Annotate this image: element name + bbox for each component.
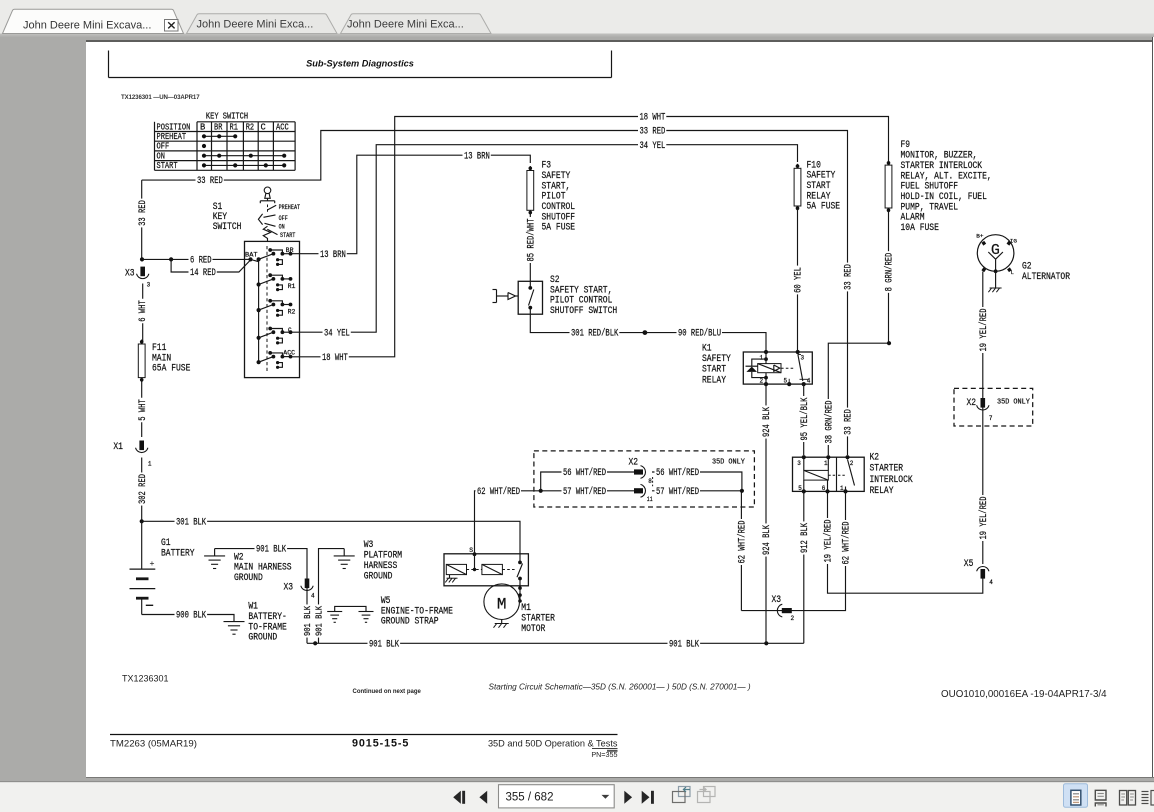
svg-text:2: 2 [760, 377, 764, 384]
switch S2 safety start pilot control shutoff [518, 281, 542, 314]
connector X3 pin 3 [140, 267, 145, 277]
svg-text:START: START [807, 181, 831, 192]
svg-text:X3: X3 [772, 595, 782, 606]
svg-text:85 RED/WHT: 85 RED/WHT [526, 219, 538, 262]
relay K1 contact blade [781, 367, 795, 369]
svg-text:STARTER: STARTER [870, 464, 904, 475]
key switch S1 spring link [263, 226, 270, 241]
svg-text:John Deere Mini Exca...: John Deere Mini Exca... [347, 19, 464, 31]
wire 8 GRN/RED from F9 to K2 pin 1 [828, 210, 888, 455]
svg-text:W2: W2 [234, 552, 244, 563]
svg-text:John Deere Mini Exca...: John Deere Mini Exca... [197, 19, 314, 31]
svg-text:355 / 682: 355 / 682 [506, 792, 554, 804]
svg-text:6 RED: 6 RED [190, 256, 212, 267]
svg-text:34 YEL: 34 YEL [640, 141, 666, 152]
svg-text:F3: F3 [542, 161, 552, 172]
svg-text:SAFETY: SAFETY [542, 171, 571, 182]
svg-text:K1: K1 [702, 343, 712, 354]
svg-text:X3: X3 [284, 583, 294, 594]
alternator G2 terminal IG [1007, 241, 1012, 246]
junction battery positive node [140, 519, 144, 523]
starter motor M1 [484, 584, 520, 620]
svg-text:10A FUSE: 10A FUSE [901, 223, 939, 234]
relay K1 suppression diode [752, 359, 766, 366]
fuse F9 monitor buzzer starter interlock 10A [885, 165, 892, 208]
wire 901 BLK bottom run [307, 642, 804, 644]
svg-text:G2: G2 [1022, 262, 1032, 273]
svg-text:PILOT: PILOT [542, 192, 566, 203]
svg-text:X1: X1 [113, 442, 123, 453]
relay K1 pin 4 [802, 382, 806, 386]
svg-text:901 BLK: 901 BLK [369, 639, 399, 650]
35D only option box right [954, 388, 1033, 426]
svg-text:62 WHT/RED: 62 WHT/RED [737, 521, 749, 564]
svg-text:6: 6 [822, 485, 826, 492]
key switch S1 contact bus [258, 259, 260, 362]
svg-text:PREHEAT: PREHEAT [279, 204, 301, 211]
wire 6 RED to S1 BAT [142, 258, 245, 260]
svg-text:START,: START, [542, 181, 571, 192]
svg-text:Continued on next page: Continued on next page [353, 689, 422, 695]
starter solenoid coil feed [474, 554, 476, 569]
wire 56 WHT/RED left [541, 472, 634, 491]
svg-text:R1: R1 [288, 283, 296, 290]
svg-text:35D ONLY: 35D ONLY [712, 458, 746, 466]
svg-text:SHUTOFF SWITCH: SHUTOFF SWITCH [550, 306, 617, 317]
starter solenoid pull-in coil [446, 564, 466, 574]
connector X2 pin 11 [634, 488, 643, 493]
svg-text:33 RED: 33 RED [844, 409, 855, 435]
svg-text:START: START [157, 161, 178, 171]
svg-text:X5: X5 [964, 559, 974, 570]
svg-text:33 RED: 33 RED [197, 176, 223, 187]
ground W1 battery-to-frame [224, 621, 245, 623]
wire 62 WHT/RED from K2 pin 1 through X3 pin 2 [741, 491, 845, 610]
svg-text:5 WHT: 5 WHT [138, 399, 149, 421]
wire 85 RED/WHT from F3 to S2 [529, 213, 531, 282]
svg-text:IG: IG [1010, 239, 1017, 245]
wire 14 RED to S1 BAT [171, 259, 250, 272]
wire 33 RED left vertical feed [141, 180, 143, 259]
fuse F3 safety start pilot control shutoff 5A [527, 171, 534, 211]
svg-text:1: 1 [840, 485, 844, 492]
svg-text:901 BLK: 901 BLK [303, 605, 313, 636]
wire 901 BLK from W2 through X3 pin 4 [215, 549, 307, 644]
svg-text:SHUTOFF: SHUTOFF [542, 212, 576, 223]
connector X2 pin 7 [981, 398, 986, 408]
svg-text:INTERLOCK: INTERLOCK [870, 475, 913, 486]
svg-text:ALARM: ALARM [901, 213, 925, 224]
svg-text:STARTER: STARTER [521, 613, 555, 624]
connector X5 pin 4 [981, 569, 986, 579]
splice 301 RED/BLK to 90 RED/BLU [643, 330, 648, 335]
alternator G2 terminal B+ [981, 241, 986, 246]
wire 60 YEL from F10 to K1 pin 3 [797, 208, 799, 352]
svg-text:ON: ON [157, 151, 165, 161]
svg-text:SAFETY: SAFETY [702, 354, 731, 365]
svg-text:BATTERY: BATTERY [161, 549, 195, 560]
svg-text:65A FUSE: 65A FUSE [152, 364, 190, 375]
svg-text:4: 4 [311, 593, 315, 600]
svg-text:SWITCH: SWITCH [213, 222, 242, 233]
svg-text:MAIN: MAIN [152, 353, 171, 364]
svg-text:OFF: OFF [279, 215, 288, 222]
svg-text:2: 2 [850, 460, 854, 467]
key switch S1 R1 contact [257, 282, 261, 286]
starter motor ground [501, 620, 503, 624]
svg-text:924 BLK: 924 BLK [762, 525, 773, 555]
junction 14 RED split [169, 257, 173, 261]
svg-text:8 GRN/RED: 8 GRN/RED [884, 253, 896, 292]
svg-text:TX1236301 —UN—03APR17: TX1236301 —UN—03APR17 [121, 94, 200, 101]
wire 900 BLK to W1 [142, 615, 234, 622]
svg-text:C: C [288, 327, 292, 334]
svg-text:KEY SWITCH: KEY SWITCH [206, 112, 248, 122]
page header box Sub-System Diagnostics [108, 51, 110, 78]
svg-text:5: 5 [784, 377, 788, 384]
svg-text:62 WHT/RED: 62 WHT/RED [477, 486, 520, 498]
relay K1 pin 2 [764, 382, 768, 386]
key switch S1 rotary positions [267, 205, 269, 214]
key switch table PREHEAT contacts [204, 135, 235, 137]
wire 34 YEL from S1 C to F10 [292, 145, 798, 333]
svg-text:GROUND: GROUND [248, 633, 277, 644]
connector X1 pin 1 [139, 441, 144, 451]
svg-text:F11: F11 [152, 343, 166, 354]
svg-text:GROUND: GROUND [234, 573, 263, 584]
svg-text:8: 8 [648, 478, 652, 485]
key switch table START contacts [204, 164, 284, 166]
svg-text:M1: M1 [521, 603, 531, 614]
svg-text:START: START [280, 232, 296, 239]
junction 35D box right [740, 489, 744, 493]
svg-text:33 RED: 33 RED [138, 200, 149, 226]
svg-text:5: 5 [798, 485, 802, 492]
svg-text:L: L [1011, 270, 1014, 276]
relay K1 pin 3 [796, 350, 800, 354]
svg-text:R2: R2 [246, 122, 254, 132]
svg-text:PLATFORM: PLATFORM [364, 551, 402, 562]
connector X3 pin 2 [777, 604, 782, 617]
wire 301 RED/BLK from S2 [530, 314, 645, 332]
wire 19 YEL/RED alternator to X5 [982, 272, 984, 565]
wire 912 BLK from K2 pin 5 [803, 491, 805, 643]
svg-text:4: 4 [989, 579, 993, 586]
svg-text:S: S [469, 547, 473, 554]
starter solenoid body M1 [444, 554, 528, 586]
junction X3 feed [140, 257, 144, 261]
svg-text:56 WHT/RED: 56 WHT/RED [563, 467, 606, 479]
svg-text:1: 1 [148, 460, 152, 467]
alternator G2 [977, 235, 1014, 272]
svg-text:B: B [200, 122, 205, 132]
key switch S1 BR contact [257, 257, 261, 261]
svg-text:K2: K2 [870, 453, 880, 464]
svg-text:9015-15-5: 9015-15-5 [352, 738, 409, 750]
starter solenoid ground [449, 575, 451, 579]
switch S2 actuator [496, 290, 498, 303]
svg-text:R1: R1 [230, 122, 238, 132]
svg-text:901 BLK: 901 BLK [315, 605, 325, 636]
wire 18 WHT from S1 ACC to F9 [292, 117, 889, 357]
svg-text:13 BRN: 13 BRN [464, 151, 490, 162]
svg-text:19 YEL/RED: 19 YEL/RED [823, 520, 835, 563]
svg-text:Sub-System Diagnostics: Sub-System Diagnostics [306, 59, 414, 69]
relay K2 pin 1 bottom [843, 489, 847, 493]
wire 95 YEL/BLK from K1 pin 4 to K2 pin 3 [803, 384, 805, 455]
starter solenoid contact [518, 561, 522, 565]
svg-text:G1: G1 [161, 538, 171, 549]
svg-text:CONTROL: CONTROL [542, 202, 576, 213]
svg-text:1: 1 [824, 460, 828, 467]
svg-text:301 BLK: 301 BLK [176, 517, 206, 528]
wire 57 WHT/RED right [652, 490, 742, 492]
fuse F10 safety start relay 5A [794, 168, 801, 206]
svg-text:18 WHT: 18 WHT [640, 113, 666, 124]
svg-text:38 GRN/RED: 38 GRN/RED [824, 401, 836, 444]
svg-text:M: M [497, 595, 507, 613]
svg-text:R2: R2 [288, 309, 296, 316]
svg-text:19 YEL/RED: 19 YEL/RED [978, 309, 990, 352]
key switch S1 key symbol [264, 187, 271, 194]
key switch table OFF contact [202, 144, 206, 148]
svg-text:OFF: OFF [157, 142, 170, 152]
svg-text:RELAY: RELAY [870, 486, 894, 497]
relay K2 pin 3 [802, 455, 806, 459]
junction 8 GRN/RED [887, 341, 891, 345]
svg-text:60 YEL: 60 YEL [794, 267, 805, 293]
relay K2 contact blade [828, 474, 835, 476]
svg-text:57 WHT/RED: 57 WHT/RED [563, 486, 606, 498]
svg-text:5A FUSE: 5A FUSE [542, 223, 576, 234]
svg-text:RELAY: RELAY [702, 375, 726, 386]
junction 901 BLK node [313, 641, 317, 645]
fuse F11 main 65A [138, 344, 145, 378]
wire 901 BLK from W3 [319, 549, 345, 644]
connector X3 pin 4 [305, 579, 310, 589]
svg-text:900 BLK: 900 BLK [176, 611, 206, 622]
svg-text:X2: X2 [967, 398, 977, 409]
svg-text:ON: ON [279, 223, 285, 230]
wire 33 RED from X3 junction to K2 pin 2 [142, 131, 848, 456]
svg-text:95 YEL/BLK: 95 YEL/BLK [799, 398, 811, 441]
svg-text:HARNESS: HARNESS [364, 561, 398, 572]
svg-text:GROUND STRAP: GROUND STRAP [381, 617, 439, 628]
svg-text:MONITOR, BUZZER,: MONITOR, BUZZER, [901, 151, 978, 162]
svg-text:TM2263 (05MAR19): TM2263 (05MAR19) [110, 738, 197, 749]
relay K2 pin 6 [825, 489, 829, 493]
relay K1 coil [765, 352, 767, 364]
svg-text:OUO1010,00016EA -19-04APR17-3/: OUO1010,00016EA -19-04APR17-3/4 [941, 689, 1107, 700]
svg-text:C: C [261, 122, 266, 132]
svg-text:ACC: ACC [276, 122, 289, 132]
svg-text:1: 1 [760, 355, 764, 362]
wire 6 WHT [142, 284, 144, 342]
svg-text:302 RED: 302 RED [138, 474, 149, 504]
svg-text:35D and 50D Operation & Tests: 35D and 50D Operation & Tests [488, 738, 618, 748]
svg-text:11: 11 [647, 496, 653, 503]
junction 35D box left [539, 489, 543, 493]
key switch S1 ACC contact [257, 360, 261, 364]
wire 90 RED/BLU to K1 pin 1 [645, 333, 766, 352]
svg-text:3: 3 [801, 355, 805, 362]
svg-text:912 BLK: 912 BLK [800, 523, 811, 553]
svg-text:56 WHT/RED: 56 WHT/RED [656, 467, 699, 479]
svg-text:+: + [150, 558, 155, 568]
svg-text:BR: BR [214, 122, 223, 132]
wire 56 WHT/RED right [652, 472, 742, 491]
key switch table ON contacts [204, 155, 284, 157]
svg-text:PREHEAT: PREHEAT [157, 132, 187, 142]
wire 924 BLK from K1 pin 2 [765, 384, 767, 643]
svg-text:W5: W5 [381, 596, 391, 607]
svg-text:F9: F9 [901, 140, 911, 151]
svg-text:John Deere Mini Excava...: John Deere Mini Excava... [23, 19, 151, 31]
svg-text:PUMP, TRAVEL: PUMP, TRAVEL [901, 202, 959, 213]
relay K1 pin 1 [764, 350, 768, 354]
svg-text:901 BLK: 901 BLK [669, 639, 699, 650]
relay K1 pin 5 [787, 382, 791, 386]
wire 57 WHT/RED left [541, 490, 634, 492]
svg-text:HOLD-IN COIL, FUEL: HOLD-IN COIL, FUEL [901, 192, 987, 203]
svg-text:3: 3 [797, 460, 801, 467]
svg-text:Starting Circuit Schematic—35D: Starting Circuit Schematic—35D (S.N. 260… [489, 682, 751, 691]
svg-text:STARTER INTERLOCK: STARTER INTERLOCK [901, 161, 983, 172]
alternator G2 output terminal [981, 267, 986, 272]
relay K2 pin 5 [802, 489, 806, 493]
svg-text:62 WHT/RED: 62 WHT/RED [841, 522, 853, 565]
svg-text:BAT: BAT [245, 251, 258, 258]
svg-text:X3: X3 [125, 268, 135, 279]
svg-text:POSITION: POSITION [157, 122, 191, 132]
svg-text:FUEL SHUTOFF: FUEL SHUTOFF [901, 182, 959, 193]
starter solenoid coil link dashed [467, 569, 482, 571]
key switch S1 internal dashed shaft [266, 246, 268, 372]
wire 19 YEL/RED from K2 pin 6 to X5 [828, 491, 983, 593]
svg-text:4: 4 [807, 377, 811, 384]
svg-text:5A FUSE: 5A FUSE [807, 202, 841, 213]
key switch S1 body [245, 241, 300, 377]
key switch S1 R2 contact [257, 308, 261, 312]
svg-text:19 YEL/RED: 19 YEL/RED [978, 497, 990, 540]
svg-text:TX1236301: TX1236301 [122, 674, 169, 684]
svg-text:33 RED: 33 RED [640, 127, 666, 138]
svg-text:34 YEL: 34 YEL [324, 328, 350, 339]
relay K2 pin 2 [845, 455, 849, 459]
svg-text:35D ONLY: 35D ONLY [997, 399, 1031, 407]
wire starter solenoid to motor [519, 586, 521, 602]
svg-text:GROUND: GROUND [364, 571, 393, 582]
svg-text:ALTERNATOR: ALTERNATOR [1022, 272, 1070, 283]
svg-text:90 RED/BLU: 90 RED/BLU [678, 328, 721, 340]
wire 13 BRN from S1 BR to F3 [292, 155, 530, 254]
ground W5 engine-to-frame strap [335, 606, 366, 611]
footer rule [110, 734, 618, 736]
svg-text:7: 7 [989, 415, 993, 422]
ground W3 platform harness [343, 549, 345, 556]
svg-text:301 RED/BLK: 301 RED/BLK [571, 328, 618, 340]
svg-text:B+: B+ [976, 234, 983, 240]
svg-text:924 BLK: 924 BLK [762, 407, 773, 437]
wire 301 BLK battery to starter solenoid [142, 521, 520, 554]
key switch position table grid [154, 122, 156, 171]
relay K2 pin 1 top [826, 455, 830, 459]
svg-text:START: START [702, 365, 726, 376]
35D only option box [534, 451, 755, 507]
svg-text:33 RED: 33 RED [844, 264, 855, 290]
battery G1 [141, 521, 143, 569]
alternator G2 ground [994, 269, 998, 273]
svg-text:ACC: ACC [283, 349, 295, 356]
connector X2 pin 8 [634, 469, 643, 474]
wire 5 WHT [141, 380, 143, 437]
svg-text:RELAY, ALT. EXCITE,: RELAY, ALT. EXCITE, [901, 171, 992, 182]
svg-text:57 WHT/RED: 57 WHT/RED [656, 486, 699, 498]
svg-text:F10: F10 [807, 160, 821, 171]
svg-text:6 WHT: 6 WHT [138, 300, 149, 322]
ground W2 main harness [214, 549, 216, 556]
svg-text:2: 2 [791, 615, 795, 622]
relay K2 starter interlock relay body [793, 457, 865, 491]
svg-text:18 WHT: 18 WHT [322, 353, 348, 364]
svg-text:13 BRN: 13 BRN [320, 250, 346, 261]
svg-text:MOTOR: MOTOR [521, 624, 545, 635]
svg-text:W3: W3 [364, 540, 374, 551]
svg-text:RELAY: RELAY [807, 191, 831, 202]
relay K2 coil [803, 457, 805, 470]
svg-text:MAIN HARNESS: MAIN HARNESS [234, 563, 292, 574]
key switch S1 C contact [257, 336, 261, 340]
svg-text:X2: X2 [629, 457, 639, 468]
svg-text:901 BLK: 901 BLK [256, 545, 286, 556]
svg-text:SAFETY: SAFETY [807, 171, 836, 182]
svg-text:14 RED: 14 RED [190, 268, 216, 279]
wire 302 RED [141, 458, 143, 522]
svg-text:ENGINE-TO-FRAME: ENGINE-TO-FRAME [381, 606, 453, 617]
junction 924 BLK to 901 BLK [764, 641, 768, 645]
svg-text:3: 3 [147, 282, 151, 289]
relay K1 safety start relay body [743, 352, 812, 384]
wire 62 WHT/RED up to 35D junction [740, 491, 742, 611]
wire 62 WHT/RED to starter solenoid S [475, 491, 541, 554]
alternator G2 terminal L [1007, 267, 1012, 272]
starter solenoid hold-in coil [482, 564, 503, 574]
svg-text:PN=355: PN=355 [591, 750, 617, 759]
svg-text:BR: BR [286, 247, 294, 254]
